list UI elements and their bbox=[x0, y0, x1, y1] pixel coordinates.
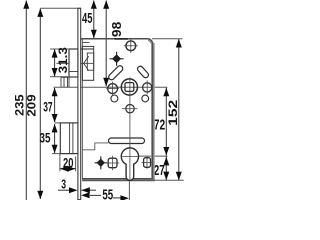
svg-text:31.3: 31.3 bbox=[56, 47, 70, 74]
svg-text:45: 45 bbox=[82, 11, 92, 27]
svg-text:98: 98 bbox=[110, 22, 124, 37]
svg-text:35: 35 bbox=[40, 130, 51, 146]
svg-text:3: 3 bbox=[61, 176, 66, 191]
svg-text:72: 72 bbox=[154, 116, 165, 133]
svg-text:27: 27 bbox=[154, 163, 165, 179]
svg-text:20: 20 bbox=[63, 154, 74, 170]
svg-text:37: 37 bbox=[43, 98, 53, 114]
svg-text:55: 55 bbox=[102, 186, 113, 200]
svg-text:152: 152 bbox=[166, 100, 180, 126]
svg-text:209: 209 bbox=[25, 94, 39, 117]
